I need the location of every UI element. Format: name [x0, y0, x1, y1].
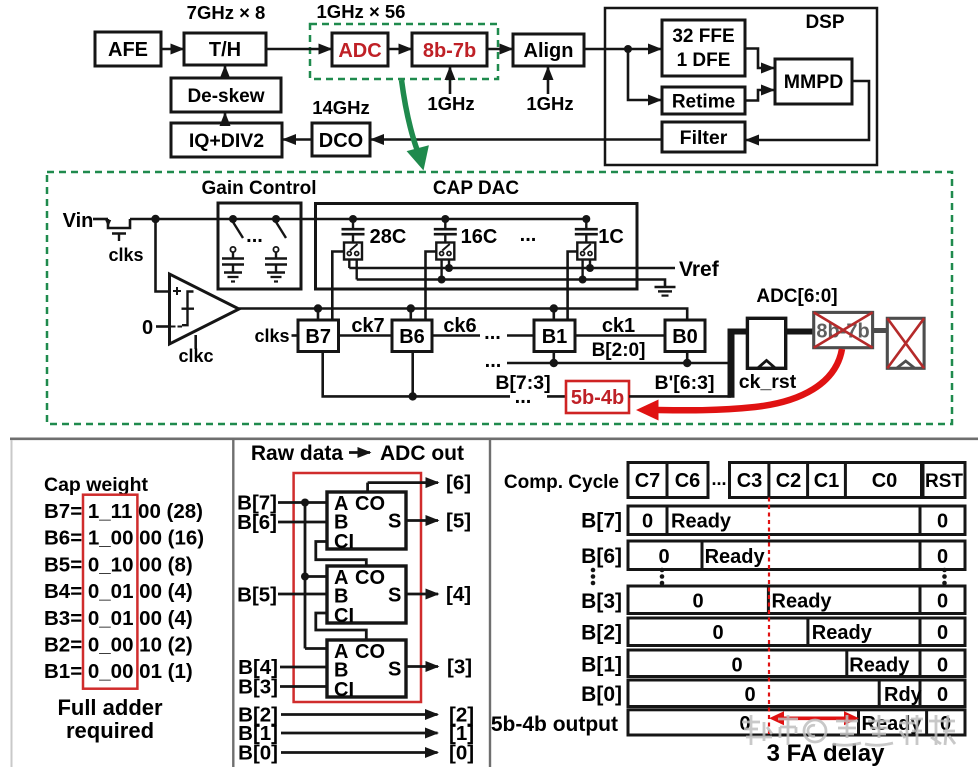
svg-text:AFE: AFE — [108, 39, 148, 61]
svg-text:0: 0 — [937, 655, 948, 677]
svg-text:S: S — [388, 659, 401, 681]
ground gain branch 2 — [267, 273, 285, 282]
node comparator out at B1 — [550, 304, 558, 320]
svg-text:CAP DAC: CAP DAC — [433, 178, 519, 199]
block MMPD — [775, 59, 852, 104]
ground at rail2 — [655, 287, 676, 296]
svg-text:Ready: Ready — [812, 622, 873, 644]
wire clkc stem — [194, 335, 197, 349]
header cycle box C3 C2 C1 C0 — [730, 463, 922, 498]
svg-text:B[3]: B[3] — [238, 676, 278, 699]
svg-text:0: 0 — [739, 713, 750, 735]
node comparator out at B6 — [407, 304, 415, 320]
svg-text:RST: RST — [925, 471, 963, 492]
block 5b-4b — [566, 381, 629, 413]
svg-text:[4]: [4] — [446, 583, 471, 606]
wire 1C left pin to rail2 — [579, 260, 587, 284]
svg-text:C1: C1 — [814, 470, 840, 492]
wire 1GHz to 8b-7b — [449, 68, 452, 95]
node sampled — [151, 215, 159, 223]
arrow B[0] passthrough — [281, 751, 438, 754]
wire Vin input — [93, 218, 108, 221]
switch gain branch 2 — [273, 222, 286, 258]
wire FA1 CO to out6 — [366, 483, 369, 492]
svg-text:1GHz × 56: 1GHz × 56 — [317, 1, 406, 22]
svg-text:0: 0 — [937, 684, 948, 706]
wire 1GHz to Align — [547, 68, 550, 95]
arrow B[2] passthrough — [281, 713, 438, 716]
divider vertical mid-right — [489, 439, 491, 767]
svg-text:B1: B1 — [542, 326, 568, 348]
svg-text:ADC out: ADC out — [380, 442, 464, 465]
svg-text:0: 0 — [142, 317, 153, 339]
svg-text:T/H: T/H — [209, 39, 241, 61]
wire 8b-7b to Align — [487, 48, 512, 51]
svg-text:0: 0 — [937, 591, 948, 613]
svg-text:0: 0 — [937, 511, 948, 533]
svg-text:C7: C7 — [635, 470, 661, 492]
wire DCO to IQ+DIV2 — [284, 138, 313, 141]
svg-text:0: 0 — [731, 655, 742, 677]
svg-text:8b-7b: 8b-7b — [423, 40, 476, 62]
arrow raw to adc — [349, 451, 370, 454]
wire clks to B7 — [292, 334, 299, 337]
svg-text:32 FFE: 32 FFE — [672, 26, 734, 47]
block IQ+DIV2 — [171, 123, 282, 157]
capacitor cell 1C — [575, 215, 598, 260]
svg-text:B[0]: B[0] — [581, 683, 622, 706]
vertical dots right — [942, 568, 947, 586]
node comparator out at B7 — [314, 304, 322, 320]
svg-text:B6= 1_00 00 (16): B6= 1_00 00 (16) — [44, 527, 204, 550]
svg-text:C0: C0 — [872, 470, 898, 492]
wire 16C left pin to rail2 — [438, 260, 446, 284]
block DSP outline — [605, 8, 877, 165]
capacitor cell 16C — [434, 215, 457, 260]
svg-text:1GHz: 1GHz — [526, 93, 573, 114]
svg-text:MMPD: MMPD — [784, 71, 844, 93]
full adder FA3 — [327, 640, 406, 701]
wire flip-flop to crossed 8b-7b — [786, 329, 814, 335]
svg-text:0: 0 — [744, 684, 755, 706]
block ADC — [332, 33, 388, 66]
sampling switch transistor — [105, 219, 130, 241]
svg-text:Gain Control: Gain Control — [201, 178, 316, 199]
block B6 — [392, 320, 432, 352]
wire Vref rail — [349, 267, 675, 270]
svg-text:B[2:0]: B[2:0] — [592, 340, 646, 361]
header box RST — [923, 463, 965, 498]
svg-text:CO: CO — [355, 493, 385, 515]
ground gain branch 1 — [224, 273, 242, 282]
svg-text:B[6]: B[6] — [237, 511, 277, 534]
block 32 FFE 1 DFE — [662, 20, 745, 76]
svg-text:ck_rst: ck_rst — [739, 371, 797, 393]
svg-text:Rdy: Rdy — [884, 684, 923, 706]
wire AFE to T/H — [161, 48, 183, 51]
svg-text:Vref: Vref — [679, 258, 720, 281]
block crossed-out 8b-7b — [814, 312, 873, 347]
svg-text:CO: CO — [355, 567, 385, 589]
wire thick output bus — [728, 332, 748, 398]
row B[0] timeline — [628, 680, 965, 707]
divider vertical left faint — [11, 440, 13, 767]
block Align — [513, 34, 584, 66]
wire comparator output bus — [239, 309, 687, 321]
block T/H — [184, 33, 266, 65]
box CAP DAC — [316, 204, 638, 290]
arrow out6 — [368, 481, 438, 484]
arrow B[1] passthrough — [281, 732, 438, 735]
wire sampled node rail — [130, 218, 586, 221]
svg-text:clkc: clkc — [178, 346, 213, 366]
wire crossed 8b-7b to crossed register — [873, 328, 888, 333]
svg-text:Raw data: Raw data — [251, 442, 344, 465]
wire B[6] to FA1 B — [278, 521, 327, 524]
row B[3] timeline — [628, 586, 965, 614]
wire De-skew to T/H — [224, 67, 227, 79]
svg-text:[0]: [0] — [449, 742, 474, 765]
svg-text:...: ... — [515, 386, 532, 408]
green dashed region (ADC + 8b-7b) — [310, 24, 498, 79]
svg-text:Filter: Filter — [680, 127, 728, 149]
wire FA2 carry to FA1 CI — [316, 542, 367, 566]
svg-text:S: S — [388, 585, 401, 607]
svg-text:B1= 0_00 01 (1): B1= 0_00 01 (1) — [44, 660, 193, 683]
svg-text:1 DFE: 1 DFE — [677, 50, 731, 71]
wire 32 FFE to MMPD — [745, 49, 774, 69]
svg-text:C3: C3 — [737, 470, 763, 492]
svg-text:B3= 0_01 00 (4): B3= 0_01 00 (4) — [44, 607, 193, 630]
svg-text:IQ+DIV2: IQ+DIV2 — [189, 130, 264, 152]
wire 28C left pin to Vref rail — [348, 260, 350, 269]
block DCO — [312, 123, 370, 156]
red box full adder column — [83, 495, 137, 689]
svg-text:CI: CI — [334, 531, 354, 553]
flip-flop output register — [747, 318, 785, 368]
svg-text:B[0]: B[0] — [238, 742, 278, 765]
switch gain branch 1 — [230, 222, 243, 258]
svg-text:[6]: [6] — [446, 472, 471, 495]
svg-text:B7= 1_11 00 (28): B7= 1_11 00 (28) — [44, 500, 203, 523]
svg-text:B7: B7 — [305, 326, 331, 348]
svg-text:...: ... — [246, 225, 263, 247]
wire T/H to ADC — [266, 48, 331, 51]
capacitor gain branch 2 — [265, 259, 287, 273]
svg-text:ck1: ck1 — [602, 315, 635, 337]
wire junction to Retime — [628, 49, 661, 100]
block B7 — [298, 320, 339, 352]
capacitor cell 28C — [342, 215, 365, 260]
wire Filter to DCO — [372, 138, 663, 141]
row B[7] timeline — [628, 506, 965, 535]
svg-text:B[6]: B[6] — [581, 545, 622, 568]
wire ADC to 8b-7b — [388, 48, 411, 51]
svg-text:1C: 1C — [598, 226, 624, 248]
row B[2] timeline — [628, 618, 965, 646]
row B[6] timeline — [628, 541, 965, 570]
arrow FA1 S to out5 — [406, 519, 438, 522]
block Retime — [662, 87, 745, 114]
divider vertical mid-left — [232, 439, 234, 767]
wire B7 vertical feed — [301, 499, 327, 649]
wire zero to comparator minus — [156, 325, 170, 328]
block AFE — [95, 32, 161, 66]
svg-text:14GHz: 14GHz — [312, 97, 370, 118]
svg-text:ck6: ck6 — [443, 315, 476, 337]
full adder FA1 — [327, 492, 406, 553]
svg-text:Cap weight: Cap weight — [44, 474, 149, 496]
wire IQ+DIV2 to De-skew — [224, 114, 227, 124]
svg-text:CI: CI — [334, 679, 354, 701]
wire 1C right pin to Vref rail — [586, 260, 594, 273]
svg-text:CI: CI — [334, 605, 354, 627]
svg-text:[5]: [5] — [446, 510, 471, 533]
red arrow to 5b-4b — [636, 349, 842, 421]
wire ck7 — [339, 334, 393, 337]
row 5b-4b output timeline — [628, 710, 965, 735]
svg-text:0: 0 — [692, 591, 703, 613]
node B1 to B2:0 line — [550, 352, 558, 368]
svg-text:B[5]: B[5] — [237, 584, 277, 607]
svg-text:...: ... — [484, 322, 501, 344]
wire 1C common to B1 — [568, 252, 578, 321]
block 8b-7b encoder — [412, 33, 487, 66]
svg-text:[3]: [3] — [447, 656, 472, 679]
svg-text:1GHz: 1GHz — [427, 93, 474, 114]
svg-text:B4= 0_01 00 (4): B4= 0_01 00 (4) — [44, 580, 193, 603]
row B[1] timeline — [628, 650, 965, 677]
svg-text:Ready: Ready — [849, 655, 910, 677]
wire FA3 carry to FA2 CI — [316, 613, 367, 639]
svg-text:B[2]: B[2] — [581, 622, 622, 645]
block B1 — [534, 320, 575, 352]
svg-text:5b-4b output: 5b-4b output — [491, 713, 618, 736]
wire B[7] to FA1 A — [278, 501, 327, 504]
svg-text:0: 0 — [937, 622, 948, 644]
svg-text:Align: Align — [524, 40, 574, 62]
full adder FA2 — [327, 566, 406, 627]
arrow FA3 S to out3 — [406, 665, 438, 668]
node gain branch 2 — [272, 215, 280, 223]
green arrow into SAR detail — [402, 80, 429, 171]
svg-text:B5= 0_10 00 (8): B5= 0_10 00 (8) — [44, 553, 193, 576]
svg-text:16C: 16C — [461, 226, 498, 248]
svg-text:5b-4b: 5b-4b — [571, 387, 624, 409]
node B0 to B2:0 line — [683, 352, 691, 368]
wire Retime to MMPD — [745, 90, 774, 101]
wire into 5b-4b — [547, 395, 566, 398]
box Gain Control — [218, 203, 301, 289]
red delay arrow — [769, 711, 859, 725]
svg-text:B[7]: B[7] — [581, 510, 622, 533]
svg-text:B[3]: B[3] — [581, 590, 622, 613]
svg-text:S: S — [388, 511, 401, 533]
block De-skew — [171, 78, 281, 112]
red box full adders — [294, 473, 421, 702]
node junction after Align — [624, 45, 632, 53]
watermark zhihu — [742, 715, 955, 745]
svg-text:B2= 0_00 10 (2): B2= 0_00 10 (2) — [44, 634, 193, 657]
block B0 — [665, 320, 705, 352]
svg-text:DCO: DCO — [319, 130, 363, 152]
wire into B1 — [507, 334, 534, 337]
svg-text:C6: C6 — [675, 470, 701, 492]
svg-text:required: required — [66, 718, 154, 743]
svg-text:ck7: ck7 — [351, 315, 384, 337]
svg-text:...: ... — [520, 224, 537, 246]
svg-text:0: 0 — [658, 546, 669, 568]
svg-text:B[1]: B[1] — [581, 654, 622, 677]
node gain branch 1 — [229, 215, 237, 223]
svg-text:clks: clks — [254, 326, 289, 346]
svg-text:B0: B0 — [672, 326, 698, 348]
op-amp comparator — [170, 274, 240, 344]
block crossed-out register — [887, 318, 924, 368]
wire 28C common to B7 — [332, 252, 344, 321]
wire node to comparator plus — [156, 219, 170, 292]
red dashed cursor line — [768, 498, 770, 735]
wire B[4] to FA3 B — [280, 666, 327, 669]
svg-text:De-skew: De-skew — [187, 86, 264, 107]
wire 5b-4b to bus — [629, 395, 731, 398]
block Filter — [662, 122, 745, 152]
wire Align to 32 FFE — [584, 48, 661, 51]
svg-text:ADC: ADC — [338, 40, 381, 62]
node B6 down to B[7:3] line — [409, 352, 417, 401]
svg-text:DSP: DSP — [805, 12, 844, 33]
arrow FA2 S to out4 — [406, 593, 438, 596]
svg-text:28C: 28C — [370, 226, 407, 248]
wire B[3] to FA3 CI — [280, 685, 327, 688]
divider horizontal — [10, 437, 978, 440]
svg-text:...: ... — [711, 469, 726, 489]
svg-text:ADC[6:0]: ADC[6:0] — [756, 286, 837, 307]
green dashed SAR ADC detail box — [47, 172, 952, 424]
svg-text:Ready: Ready — [705, 546, 766, 568]
svg-text:B6: B6 — [399, 326, 425, 348]
wire B[5] to FA2 B — [278, 593, 327, 596]
svg-text:0: 0 — [712, 622, 723, 644]
wire ck1 — [575, 334, 665, 337]
wire MMPD to Filter — [747, 81, 870, 140]
svg-text:clks: clks — [108, 245, 143, 265]
wire B7 down to B[7:3] line — [323, 352, 510, 397]
svg-text:Vin: Vin — [63, 210, 94, 232]
wire 16C common to B6 — [426, 252, 437, 321]
svg-text:0: 0 — [642, 511, 653, 533]
wire 16C right pin to Vref rail — [445, 260, 453, 273]
svg-text:Ready: Ready — [772, 591, 833, 613]
svg-text:...: ... — [485, 350, 502, 372]
svg-text:Full adder: Full adder — [57, 695, 163, 720]
svg-text:Ready: Ready — [671, 511, 732, 533]
svg-text:Retime: Retime — [672, 92, 735, 113]
svg-text:CO: CO — [355, 641, 385, 663]
svg-text:0: 0 — [937, 546, 948, 568]
wire ck6 — [432, 334, 480, 337]
svg-text:B'[6:3]: B'[6:3] — [655, 372, 715, 394]
capacitor gain branch 1 — [222, 259, 244, 273]
header cycle box C7 C6 — [628, 463, 708, 498]
vertical dots left — [591, 568, 596, 586]
svg-text:Comp. Cycle: Comp. Cycle — [504, 472, 619, 493]
wire B[2:0] line to bus — [507, 362, 731, 365]
wire 28C right pin to rail2 — [356, 260, 358, 280]
wire rail2 — [357, 280, 665, 287]
svg-text:7GHz × 8: 7GHz × 8 — [187, 2, 266, 23]
vertical dots mid — [660, 568, 665, 586]
svg-text:C2: C2 — [776, 470, 802, 492]
